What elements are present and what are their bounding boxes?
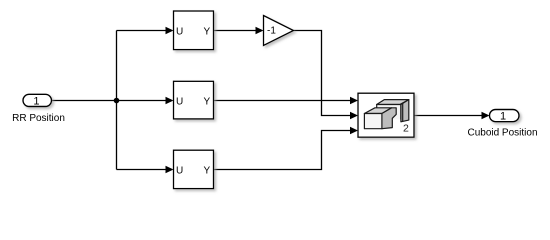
arrowhead into concatenate input 3 xyxy=(350,127,358,134)
arrowhead into concatenate input 2 xyxy=(350,112,358,119)
selector block U3 xyxy=(174,150,214,188)
wire: gain to concatenate input 2 xyxy=(294,31,353,116)
wire: branch to selector U3 xyxy=(117,169,168,171)
wire: selector U3 to concatenate input 3 xyxy=(214,131,353,170)
wire: inport to junction to selector U2 xyxy=(52,100,168,102)
svg-text:-1: -1 xyxy=(267,26,276,37)
cuboid icon back box xyxy=(377,100,409,122)
arrowhead into selector U1 xyxy=(166,27,174,34)
svg-text:Y: Y xyxy=(204,27,211,38)
inport 1 RR Position xyxy=(12,94,65,124)
wire: vertical branch line xyxy=(116,31,118,170)
wire: concatenate to outport xyxy=(414,115,484,117)
svg-text:U: U xyxy=(176,27,183,38)
arrowhead into selector U2 xyxy=(166,97,174,104)
arrowhead into outport xyxy=(482,112,490,119)
svg-text:2: 2 xyxy=(403,123,409,135)
gain block -1 xyxy=(264,16,294,46)
arrowhead into concatenate input 1 xyxy=(350,97,358,104)
cuboid icon front box xyxy=(364,108,396,129)
arrowhead into selector U3 xyxy=(166,166,174,173)
selector block U2 xyxy=(174,81,214,119)
node: branch junction xyxy=(114,98,120,104)
svg-text:Y: Y xyxy=(204,166,211,177)
concatenate block xyxy=(358,93,414,137)
svg-text:RR Position: RR Position xyxy=(12,113,65,124)
outport 1 Cuboid Position xyxy=(467,110,537,139)
svg-text:Cuboid Position: Cuboid Position xyxy=(467,128,537,139)
arrowhead into gain xyxy=(256,27,264,34)
svg-text:Y: Y xyxy=(204,97,211,108)
selector block U1 xyxy=(174,11,214,50)
svg-text:1: 1 xyxy=(33,95,39,107)
wire: selector U2 to concatenate input 1 xyxy=(214,100,353,102)
svg-text:1: 1 xyxy=(500,110,506,122)
wire: branch to selector U1 xyxy=(117,30,168,32)
wire: selector U1 to gain xyxy=(214,30,258,32)
svg-text:U: U xyxy=(176,166,183,177)
svg-text:U: U xyxy=(176,97,183,108)
